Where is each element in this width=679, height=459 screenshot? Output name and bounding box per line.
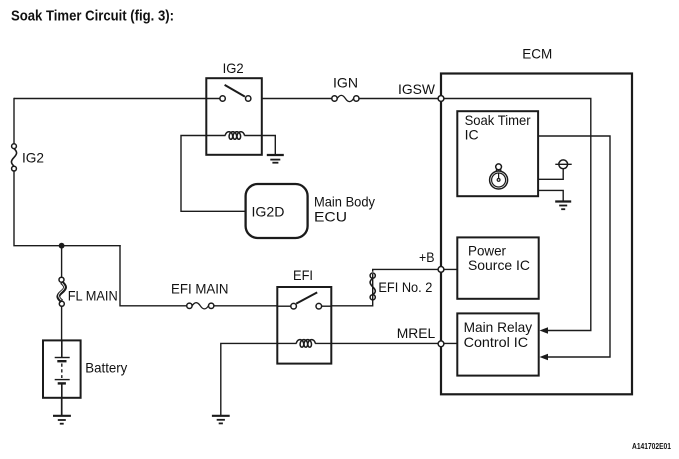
svg-text:EFI: EFI: [293, 267, 313, 283]
svg-text:IGSW: IGSW: [398, 81, 436, 97]
wire: Soak Timer IC to ground: [538, 190, 563, 201]
battery box: [43, 340, 81, 397]
svg-text:IG2: IG2: [22, 150, 44, 166]
wire: left vertical from top corner down to IG2 connector: [13, 98, 15, 145]
wire: EFI coil left lead to ground: [221, 343, 277, 415]
svg-text:Source IC: Source IC: [468, 257, 530, 273]
svg-text:IG2D: IG2D: [252, 203, 285, 219]
relay IG2 switch contacts and blade: [220, 85, 251, 101]
wire: battery box bottom to ground: [61, 398, 63, 415]
wire: top horizontal from left corner to IG2 relay box: [14, 98, 220, 100]
svg-text:Battery: Battery: [85, 359, 127, 375]
wire: IG2 coil left lead down to IG2D terminal of Main Body ECU: [181, 136, 245, 212]
svg-text:Main Relay: Main Relay: [464, 319, 532, 335]
connector EFI No. 2 (circles with wavy link): [370, 273, 375, 300]
wire: EFI switch output right, up through EFI No.2 connector to +B node: [331, 274, 372, 306]
wire: EFI No.2 connector top to +B node into Power Source IC: [373, 269, 458, 271]
ground (EFI relay coil): [212, 416, 230, 424]
terminal box IG2D (Main Body ECU, rounded): [246, 184, 308, 238]
icon stopwatch (soak timer): [490, 164, 508, 189]
wire: EFI coil right lead to MREL node into Main Relay Control IC: [331, 342, 457, 344]
arrowhead into Main Relay Control IC (from Soak Timer IC): [540, 354, 549, 360]
node IGSW (pin circle on ECM edge): [438, 96, 444, 102]
battery symbol (cells): [55, 340, 70, 398]
fuse EFI MAIN (circles with wavy link): [187, 303, 214, 309]
svg-text:EFI No. 2: EFI No. 2: [378, 279, 432, 295]
node +B (pin circle on ECM edge): [438, 267, 444, 273]
arrowhead into Main Relay Control IC (from IGSW): [540, 327, 549, 333]
wire: IG2 relay output to IGN fuse: [262, 98, 332, 100]
svg-text:+B: +B: [419, 249, 435, 265]
relay EFI box: [277, 287, 331, 364]
svg-text:MREL: MREL: [397, 325, 436, 341]
svg-text:IC: IC: [465, 127, 479, 143]
wire: EFI MAIN fuse to EFI relay box: [214, 305, 278, 307]
junction node (battery branch): [59, 243, 65, 249]
svg-text:IGN: IGN: [333, 74, 358, 90]
relay EFI coil: [277, 340, 331, 348]
wire: IG2 coil right lead to ground: [262, 136, 275, 155]
relay IG2 coil: [206, 132, 262, 140]
wire: IGSW trace inside ECM down to Main Relay Control IC (with arrow): [441, 99, 591, 331]
svg-text:A141702E01: A141702E01: [632, 442, 671, 451]
terminal circle symbol (battery sense): [555, 160, 571, 169]
svg-text:Soak Timer Circuit (fig. 3):: Soak Timer Circuit (fig. 3):: [11, 8, 174, 25]
fuse IGN (circles with wavy link): [332, 95, 359, 101]
connector IG2 (left wire, circles with wavy link): [11, 144, 16, 171]
wire: IGN fuse to IGSW node at ECM edge: [359, 98, 441, 100]
svg-text:IG2: IG2: [223, 60, 244, 76]
wire: left vertical from IG2 connector down to corner, then right to junction and x=120: [14, 170, 121, 245]
svg-text:FL MAIN: FL MAIN: [68, 288, 118, 304]
svg-text:EFI MAIN: EFI MAIN: [171, 281, 229, 297]
wire: junction down to FL MAIN: [61, 246, 63, 278]
svg-text:Main Body: Main Body: [314, 193, 375, 209]
wire: FL MAIN down to battery box: [61, 306, 63, 341]
svg-text:ECM: ECM: [522, 45, 552, 61]
svg-text:Control IC: Control IC: [464, 334, 528, 350]
IC box Soak Timer IC: [457, 111, 538, 196]
IC box Main Relay Control IC: [457, 313, 538, 375]
node MREL (pin circle on ECM edge): [438, 341, 444, 347]
ECM box: [441, 74, 632, 395]
wire: corner x=120 down then right to EFI MAIN fuse: [120, 245, 187, 306]
wire: Soak Timer IC output to Main Relay Control IC (with arrow): [538, 136, 610, 357]
relay IG2 box: [206, 78, 261, 155]
IC box Power Source IC: [457, 237, 538, 298]
svg-text:ECU: ECU: [314, 209, 347, 225]
ground (battery): [53, 416, 71, 424]
relay EFI switch contacts and blade: [277, 292, 331, 309]
ground (IG2 relay coil): [267, 155, 284, 163]
wire: Soak Timer IC to terminal circle: [538, 169, 563, 180]
fusible link FL MAIN (circles with thick wavy band): [58, 277, 65, 306]
ground (Soak Timer IC): [555, 202, 571, 210]
